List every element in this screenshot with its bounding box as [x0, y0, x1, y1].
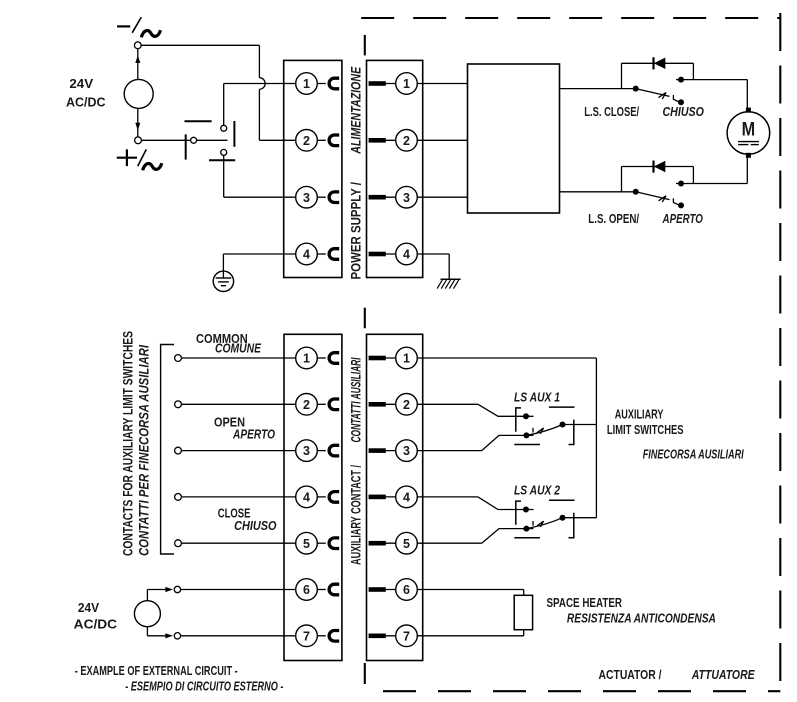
svg-text:CHIUSO: CHIUSO [234, 518, 276, 533]
svg-text:ACTUATOR /: ACTUATOR / [599, 667, 662, 682]
svg-text:2: 2 [403, 398, 410, 412]
svg-text:2: 2 [303, 398, 310, 412]
svg-text:- ESEMPIO DI CIRCUITO ESTERNO: - ESEMPIO DI CIRCUITO ESTERNO - [125, 678, 283, 693]
svg-text:1: 1 [303, 77, 310, 91]
svg-text:3: 3 [403, 191, 410, 205]
svg-text:7: 7 [303, 629, 310, 643]
svg-text:1: 1 [403, 352, 410, 366]
svg-text:2: 2 [303, 134, 310, 148]
svg-text:3: 3 [303, 191, 310, 205]
svg-text:LS AUX 2: LS AUX 2 [514, 483, 561, 498]
svg-text:CHIUSO: CHIUSO [663, 104, 704, 119]
svg-text:APERTO: APERTO [232, 427, 275, 442]
svg-text:- EXAMPLE OF EXTERNAL CIRCUIT: - EXAMPLE OF EXTERNAL CIRCUIT - [75, 663, 238, 678]
svg-text:5: 5 [403, 537, 410, 551]
svg-text:4: 4 [303, 491, 310, 505]
svg-text:7: 7 [403, 629, 410, 643]
svg-text:ATTUATORE: ATTUATORE [691, 667, 755, 682]
svg-text:4: 4 [403, 248, 410, 262]
svg-text:3: 3 [403, 444, 410, 458]
svg-text:CONTATTI AUSILIARI: CONTATTI AUSILIARI [348, 357, 364, 443]
svg-text:SPACE HEATER: SPACE HEATER [547, 595, 623, 610]
svg-text:24V: 24V [69, 76, 93, 91]
svg-text:1: 1 [303, 352, 310, 366]
svg-text:APERTO: APERTO [662, 211, 703, 226]
svg-text:3: 3 [303, 444, 310, 458]
svg-text:24V: 24V [78, 600, 99, 615]
svg-text:COMUNE: COMUNE [215, 341, 261, 356]
svg-text:RESISTENZA ANTICONDENSA: RESISTENZA ANTICONDENSA [567, 611, 716, 626]
svg-text:2: 2 [403, 134, 410, 148]
svg-text:AC/DC: AC/DC [74, 616, 118, 631]
svg-text:CONTACTS FOR AUXILIARY LIMIT S: CONTACTS FOR AUXILIARY LIMIT SWITCHES [120, 331, 136, 556]
svg-text:AC/DC: AC/DC [66, 94, 106, 109]
svg-text:LS AUX 1: LS AUX 1 [514, 390, 560, 405]
svg-text:CONTATTI PER FINECORSA AUSILIA: CONTATTI PER FINECORSA AUSILIARI [136, 344, 152, 556]
svg-text:4: 4 [303, 248, 310, 262]
svg-text:POWER SUPPLY /: POWER SUPPLY / [348, 182, 364, 280]
svg-text:L.S. OPEN/: L.S. OPEN/ [588, 211, 639, 226]
svg-text:1: 1 [403, 77, 410, 91]
svg-text:6: 6 [403, 583, 410, 597]
svg-text:LIMIT SWITCHES: LIMIT SWITCHES [607, 422, 684, 437]
svg-text:M: M [742, 120, 756, 141]
svg-text:AUXILIARY: AUXILIARY [615, 406, 664, 421]
svg-text:6: 6 [303, 583, 310, 597]
svg-text:4: 4 [403, 491, 410, 505]
svg-text:L.S. CLOSE/: L.S. CLOSE/ [584, 104, 639, 119]
svg-text:AUXILIARY CONTACT /: AUXILIARY CONTACT / [348, 465, 364, 565]
svg-text:5: 5 [303, 537, 310, 551]
svg-text:FINECORSA AUSILIARI: FINECORSA AUSILIARI [643, 447, 744, 462]
svg-text:ALIMENTAZIONE: ALIMENTAZIONE [348, 66, 364, 154]
